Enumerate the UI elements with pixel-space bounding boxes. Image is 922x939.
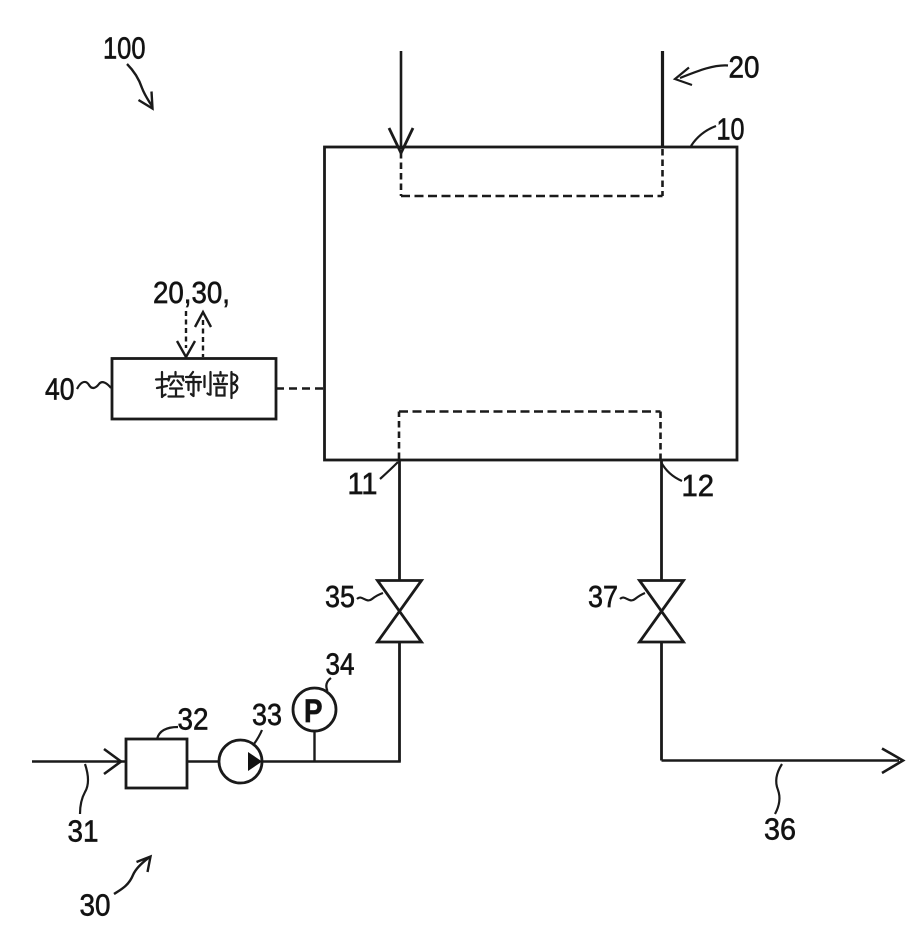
inlet pipe — [400, 51, 403, 149]
label 100 — [103, 31, 153, 109]
pipe box to pump — [187, 760, 219, 763]
svg-text:35: 35 — [325, 579, 355, 614]
outlet pipe 36 — [662, 759, 900, 762]
svg-text:10: 10 — [717, 112, 745, 147]
internal dashed coil bottom — [398, 412, 401, 460]
valve 35 — [378, 581, 422, 643]
svg-text:32: 32 — [178, 702, 209, 737]
pipe valve37 down — [660, 642, 663, 761]
svg-text:11: 11 — [348, 466, 378, 501]
gauge stem — [313, 731, 315, 762]
label 33 — [252, 697, 282, 744]
pipe valve35 down — [398, 642, 401, 762]
svg-text:100: 100 — [103, 31, 146, 66]
label 11 — [348, 462, 399, 501]
svg-text:31: 31 — [68, 814, 99, 849]
label 10 — [691, 112, 745, 147]
svg-text:33: 33 — [252, 697, 282, 732]
char 部 — [214, 372, 237, 398]
dashed control line — [276, 387, 325, 390]
label 31 — [68, 764, 99, 849]
text 控制部 — [156, 372, 237, 398]
svg-text:30: 30 — [80, 888, 111, 923]
label 34 — [326, 647, 355, 692]
svg-text:20,30,: 20,30, — [153, 275, 230, 310]
label 37 — [588, 579, 645, 614]
svg-text:P: P — [304, 693, 323, 729]
svg-text:37: 37 — [588, 579, 618, 614]
svg-text:34: 34 — [326, 647, 355, 682]
label 30 — [80, 857, 151, 923]
dashed arrow up from control — [202, 320, 204, 357]
feed arrowhead — [104, 749, 121, 774]
pump 33 — [219, 740, 262, 783]
svg-text:36: 36 — [764, 812, 796, 847]
feed pipe 31 — [32, 760, 126, 763]
label 20 — [675, 50, 760, 86]
vessel 10 — [325, 147, 738, 460]
pipe 11 to valve 35 — [398, 460, 401, 581]
internal dashed coil top — [400, 152, 403, 196]
gauge 34 — [293, 688, 336, 731]
pipe 20 — [661, 51, 664, 148]
label 32 — [157, 702, 209, 740]
char 制 — [186, 372, 211, 396]
svg-text:12: 12 — [682, 468, 715, 503]
pipe 12 to valve 37 — [660, 460, 663, 581]
dashed arrow down to control — [185, 311, 187, 348]
label 36 — [764, 764, 796, 847]
inlet arrowhead — [389, 128, 413, 153]
label 12 — [661, 462, 714, 503]
label 35 — [325, 579, 383, 614]
svg-text:40: 40 — [45, 372, 75, 407]
control unit box 40 — [112, 359, 276, 420]
leader 40 — [77, 382, 111, 389]
valve 37 — [640, 581, 684, 643]
pipe pump to riser — [262, 760, 401, 763]
svg-text:20: 20 — [729, 50, 760, 85]
filter box 32 — [126, 739, 187, 788]
char 控 — [156, 372, 184, 397]
outlet arrowhead — [882, 749, 903, 774]
